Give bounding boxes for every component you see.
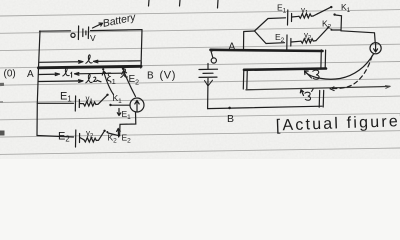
svg-text:(V): (V) <box>160 70 176 82</box>
wire <box>292 15 299 18</box>
wire: left edge of battery loop down to lower branches <box>37 31 40 136</box>
cell E1 <box>288 10 292 25</box>
key K1 (lever and dots) <box>318 6 336 16</box>
key K2 (lever and dots) <box>316 26 332 41</box>
contact dot on wire <box>122 68 124 70</box>
wire: top edge right part <box>91 30 143 31</box>
svg-text:V: V <box>90 33 96 43</box>
node B end tick <box>140 62 143 68</box>
battery of driver cells (right figure) <box>199 69 218 77</box>
label l (script ell) <box>86 55 92 63</box>
resistor r2 (gamma2) <box>84 138 98 142</box>
wire K2 to join vertical <box>332 29 341 31</box>
svg-text:B: B <box>227 113 234 125</box>
label l E2 at jockey arrow 2 <box>121 69 128 78</box>
wire join to galvanometer <box>341 31 375 43</box>
wire fork to E2 branch <box>255 31 285 44</box>
label V (as small v mark) <box>205 80 213 86</box>
label l1 <box>63 68 72 78</box>
jockey J' arrow on band 3 <box>300 90 303 96</box>
current direction arrow E1 <box>117 109 121 116</box>
contact dot on wire at l1 <box>102 68 104 70</box>
connector C1 between band1 and band2 (double line) <box>321 50 326 69</box>
resistor r1 (gamma1) <box>84 102 98 107</box>
wire <box>80 138 84 140</box>
wire terminal to battery <box>207 64 209 69</box>
connector C3 between band3 and bottom rail (double line) <box>319 90 324 107</box>
band3 right end arrow tick <box>386 86 391 89</box>
wire <box>80 103 84 105</box>
key K1 (switch lever with dots) <box>98 94 112 107</box>
label l2 (script) <box>86 74 97 82</box>
wire K1 to join vertical <box>336 15 342 31</box>
wire to key K1 <box>313 14 317 16</box>
branch 1 wire from left edge <box>37 102 73 104</box>
dimension arrow for length l1 <box>39 73 123 76</box>
potentiometer wire band 2 (thick) <box>244 69 326 70</box>
galvanometer G1 (circle with up arrow) <box>130 98 144 112</box>
branch 2 wire from left edge corner <box>37 136 74 138</box>
node B dot <box>228 107 231 110</box>
bottom rail wire to B and right <box>208 106 322 108</box>
wire galvanometer bottom to branch 2 junction <box>120 112 136 136</box>
potentiometer wire band 3 <box>246 86 390 89</box>
wire <box>291 40 301 43</box>
wire band1 left end to terminal circle <box>211 51 213 58</box>
terminal circle <box>211 58 216 63</box>
stray pen marks at top edge <box>149 0 219 8</box>
wire galvanometer to jockey J (curved) <box>306 54 374 79</box>
cell E2 <box>287 35 291 50</box>
svg-text:A: A <box>27 69 34 80</box>
key K2 (switch lever with dot) <box>99 130 109 141</box>
terminal dot on band1 <box>211 49 213 51</box>
wire K2 to junction <box>108 133 120 136</box>
galvanometer G2 (circle with down arrow) <box>370 43 381 54</box>
wire: right edge of battery loop <box>141 30 142 67</box>
label J' <box>305 89 313 100</box>
wire fork to E1 branch <box>255 18 286 31</box>
resistor r2 (gamma2) <box>301 39 316 44</box>
wire: top edge left part <box>40 30 71 32</box>
arrow to Battery label <box>93 23 103 28</box>
resistor r1 (gamma1) <box>299 14 313 19</box>
dashed curve arrowhead <box>330 87 334 91</box>
dashed curve galvanometer to J' region <box>331 56 373 89</box>
cell E1 <box>75 96 79 111</box>
paper texture <box>0 0 400 159</box>
paper ruled lines (decorative) <box>0 10 400 155</box>
jockey arrow 2 (balance point of E2) / wire to galvanometer <box>122 71 136 97</box>
dimension arrow for length l2 <box>39 80 102 83</box>
connector C2 between band2 and band3 (double line) <box>243 69 247 89</box>
svg-text:(0): (0) <box>4 69 16 80</box>
node fork junction <box>244 30 255 33</box>
wire battery to bottom rail <box>207 79 209 109</box>
current direction arrow E2 (up) <box>117 129 121 138</box>
potentiometer wire A-B (thick) <box>39 66 142 68</box>
label J <box>313 70 319 79</box>
jockey arrow 1 (balance point of E1) <box>102 71 113 95</box>
dimension arrow for length l (A to B) <box>40 60 141 63</box>
battery V (driver cell) <box>71 26 89 40</box>
potentiometer wire band 1 (thick) <box>211 50 323 51</box>
cell E2 <box>76 130 80 147</box>
wire K1 to galvanometer <box>112 104 131 106</box>
svg-text:B: B <box>147 71 154 82</box>
wire down to A <box>243 32 245 51</box>
jockey J arrow on band 2 <box>305 71 312 78</box>
